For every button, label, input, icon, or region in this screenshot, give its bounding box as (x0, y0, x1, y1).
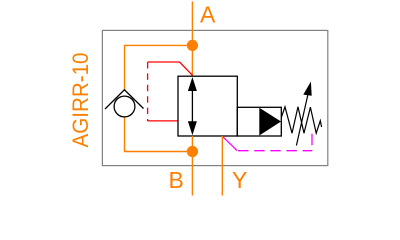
pilot box (237, 107, 281, 136)
port Y wire (221, 136, 223, 196)
pilot branch wire (orange) (125, 45, 193, 151)
flow arrow head up (188, 77, 197, 91)
flow arrow shaft (191, 88, 193, 124)
flow arrow head down (188, 121, 197, 135)
node B junction (187, 146, 198, 157)
check valve CV1 ball (114, 96, 135, 117)
svg-text:Y: Y (232, 167, 247, 193)
red pilot line solid bottom (148, 120, 178, 122)
svg-text:AGIRR-10: AGIRR-10 (68, 53, 93, 148)
port B wire (191, 136, 193, 196)
port A wire (191, 2, 193, 77)
svg-text:B: B (169, 167, 184, 193)
red pilot line dashed vertical (147, 62, 149, 121)
adjustment arrow shaft (296, 95, 307, 146)
magenta drain line dashed vertical (311, 134, 313, 151)
check valve CV1 seat (105, 90, 144, 109)
spring (281, 107, 321, 133)
svg-text:A: A (200, 2, 216, 28)
valve body square (178, 76, 237, 136)
magenta drain line dashed horizontal (238, 150, 312, 152)
magenta drain line diagonal (222, 136, 237, 150)
enclosure boundary box (102, 30, 327, 165)
pilot triangle (259, 108, 281, 136)
adjustment arrow head (303, 82, 311, 96)
red pilot line solid part (148, 62, 193, 75)
node A junction (187, 40, 198, 51)
